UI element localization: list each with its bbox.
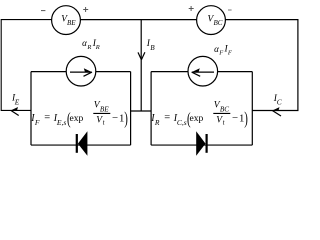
svg-text:): ) xyxy=(244,110,248,129)
svg-text:E: E xyxy=(14,98,20,107)
svg-text:E,s: E,s xyxy=(56,118,66,127)
svg-text:BC: BC xyxy=(214,19,223,27)
svg-text:B: B xyxy=(150,44,155,52)
svg-text:R: R xyxy=(86,44,91,51)
svg-text:=: = xyxy=(44,113,50,124)
svg-text:α: α xyxy=(82,38,87,48)
svg-text:R: R xyxy=(154,118,160,127)
svg-text:−: − xyxy=(232,112,238,124)
svg-text:): ) xyxy=(124,110,128,129)
svg-text:C,s: C,s xyxy=(177,118,187,127)
svg-text:BE: BE xyxy=(67,19,76,27)
svg-text:−: − xyxy=(112,112,118,124)
svg-text:C: C xyxy=(277,98,282,107)
svg-text:F: F xyxy=(34,118,40,127)
svg-text:exp: exp xyxy=(190,113,204,124)
svg-text:exp: exp xyxy=(70,113,84,124)
svg-text:BC: BC xyxy=(220,106,229,114)
svg-text:BE: BE xyxy=(100,106,109,114)
svg-text:R: R xyxy=(95,44,100,51)
svg-text:=: = xyxy=(164,113,170,124)
